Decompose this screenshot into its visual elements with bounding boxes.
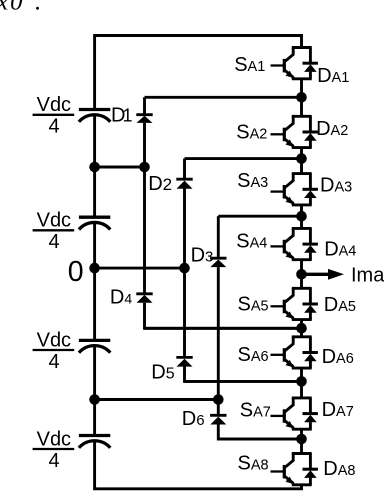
wire: tap3 xyxy=(95,398,219,401)
wire: clamp column 3 upper (n3 to D3) xyxy=(217,216,220,257)
svg-text:SA7: SA7 xyxy=(240,399,271,421)
svg-text:DA8: DA8 xyxy=(323,458,355,480)
diode D_A1 (antiparallel) xyxy=(303,48,318,79)
node 0 junction on column xyxy=(179,263,190,274)
wire: node n6 to clamp column xyxy=(185,380,302,383)
value label Vdc/4 for C4 xyxy=(33,428,75,471)
wire: node n7 to clamp column xyxy=(218,438,301,441)
diode D_A5 (antiparallel) xyxy=(303,288,318,319)
svg-text:Imax: Imax xyxy=(351,264,384,286)
wire: node n3 to clamp column xyxy=(218,215,301,218)
wire: D2 anode to node 0 and down to D5 xyxy=(183,188,186,356)
tap3 junction on bus xyxy=(89,394,100,405)
svg-text:SA6: SA6 xyxy=(238,344,269,366)
svg-text:DA7: DA7 xyxy=(322,399,354,421)
wire: D4 anode to node n5 xyxy=(145,303,302,329)
svg-text:SA4: SA4 xyxy=(236,230,267,252)
svg-text:4: 4 xyxy=(49,450,60,472)
diode D_A7 (antiparallel) xyxy=(303,398,318,429)
svg-text:SA1: SA1 xyxy=(234,54,265,76)
diode D_A3 (antiparallel) xyxy=(303,174,318,205)
node n6 junction xyxy=(296,376,307,387)
svg-text:Vdc: Vdc xyxy=(37,210,71,232)
diode D_A4 (antiparallel) xyxy=(303,228,318,259)
svg-text:DA5: DA5 xyxy=(324,294,356,316)
clamp diode D5 xyxy=(176,357,192,366)
wire: clamp column 1 upper (n1 to D1) xyxy=(143,97,146,113)
wire: node n5 to clamp column xyxy=(145,327,302,330)
node n7 junction xyxy=(296,434,307,445)
transistor S_A4 (IGBT) xyxy=(271,228,312,259)
svg-text:DA3: DA3 xyxy=(320,174,352,196)
svg-text:D4: D4 xyxy=(110,286,132,308)
svg-text:SA2: SA2 xyxy=(236,121,267,143)
transistor S_A3 (IGBT) xyxy=(271,174,312,205)
svg-text:SA8: SA8 xyxy=(238,453,269,475)
transistor S_A8 (IGBT) xyxy=(271,454,312,485)
clamp diode D4 xyxy=(136,294,152,303)
capacitor C1 Vdc/4 xyxy=(79,108,110,111)
svg-text:SA3: SA3 xyxy=(237,170,268,192)
bottom rail xyxy=(95,442,302,489)
tap1 junction on bus xyxy=(89,162,100,173)
transistor S_A5 (IGBT) xyxy=(271,288,312,319)
svg-text:Vdc: Vdc xyxy=(37,329,71,351)
wire: chain leads xyxy=(300,79,303,454)
clamp diode D3 xyxy=(210,258,226,267)
svg-text:D6: D6 xyxy=(182,408,205,430)
top rail xyxy=(95,36,302,109)
svg-text:x0: x0 xyxy=(0,0,25,16)
svg-text:SA5: SA5 xyxy=(238,294,269,316)
svg-text:Vdc: Vdc xyxy=(37,428,71,450)
clamp diode D2 xyxy=(176,179,192,189)
node n1 junction xyxy=(296,92,307,103)
svg-text:DA4: DA4 xyxy=(324,238,356,260)
wire: node n2 to clamp column xyxy=(185,157,302,160)
wire: clamp column 2 upper (n2 to D2) xyxy=(183,159,186,178)
wire: D6 anode to node n7 xyxy=(218,424,301,439)
diode D_A2 (antiparallel) xyxy=(303,116,318,147)
wire: D5 anode to node n6 xyxy=(185,366,302,381)
value label Vdc/4 for C2 xyxy=(33,210,75,253)
svg-text:.: . xyxy=(35,0,41,16)
node n4 junction xyxy=(296,269,307,280)
wire: dc bus segment node 0 xyxy=(93,223,96,339)
svg-text:D5: D5 xyxy=(151,361,174,383)
capacitor C2 Vdc/4 xyxy=(79,216,110,219)
svg-text:4: 4 xyxy=(49,116,60,138)
value label Vdc/4 for C1 xyxy=(33,94,75,137)
value label Vdc/4 for C3 xyxy=(33,329,75,372)
svg-text:4: 4 xyxy=(49,231,60,253)
svg-text:Vdc: Vdc xyxy=(37,94,71,116)
capacitor C3 Vdc/4 xyxy=(79,339,110,342)
transistor S_A6 (IGBT) xyxy=(271,337,312,368)
svg-text:D2: D2 xyxy=(148,173,172,195)
svg-text:D3: D3 xyxy=(191,245,214,267)
transistor S_A7 (IGBT) xyxy=(271,398,312,429)
tap1 junction on column xyxy=(139,162,150,173)
diode D_A8 (antiparallel) xyxy=(303,454,318,485)
diode D_A6 (antiparallel) xyxy=(303,337,318,368)
wire: node n1 to clamp column xyxy=(145,96,302,99)
wire: node 0 xyxy=(95,267,185,270)
output arrowhead xyxy=(328,269,344,280)
clamp diode D6 xyxy=(210,415,226,424)
node n3 junction xyxy=(296,211,307,222)
svg-text:DA1: DA1 xyxy=(317,65,349,87)
clamp diode D1 xyxy=(136,115,152,123)
node n2 junction xyxy=(296,153,307,164)
svg-text:D1: D1 xyxy=(111,105,132,127)
wire: D3 anode to tap3 and down to D6 xyxy=(217,267,220,414)
svg-text:4: 4 xyxy=(49,351,60,373)
node n5 junction xyxy=(296,323,307,334)
transistor S_A2 (IGBT) xyxy=(271,116,312,147)
wire: output lead xyxy=(302,273,331,276)
svg-text:0: 0 xyxy=(68,256,84,288)
svg-text:DA2: DA2 xyxy=(316,118,348,140)
wire: tap1 xyxy=(95,166,145,169)
svg-text:DA6: DA6 xyxy=(322,346,354,368)
transistor S_A1 (IGBT) xyxy=(271,48,312,79)
wire: dc bus segment tap3 xyxy=(93,347,96,435)
wire: dc bus segment tap1 xyxy=(93,115,96,216)
node 0 junction on bus xyxy=(89,263,100,274)
wire: D1 anode to tap1 and down to D4 xyxy=(143,123,146,293)
tap3 junction on column xyxy=(213,394,224,405)
capacitor C4 Vdc/4 xyxy=(79,434,110,437)
